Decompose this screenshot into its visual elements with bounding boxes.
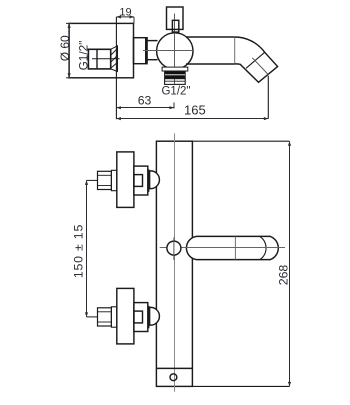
dim 268 [288, 141, 291, 386]
elbow outer arc + 45 deg end [235, 37, 278, 82]
spout tube (top view) [186, 36, 235, 38]
cone tail with hatch [111, 46, 118, 72]
threaded block [165, 71, 186, 79]
svg-text:19: 19 [119, 6, 131, 18]
neck to circle [147, 40, 157, 42]
threaded G1/2 below circle: collar [162, 67, 188, 71]
top connection assembly [87, 152, 160, 208]
elbow ring joint line [246, 52, 265, 68]
dim 150 ± 15 [85, 180, 88, 317]
svg-text:G1/2": G1/2" [161, 86, 190, 98]
dim 63 [116, 103, 174, 110]
spout centerline [160, 247, 285, 249]
nut centerline [92, 58, 120, 60]
extension from spout tip [267, 76, 269, 119]
svg-text:268: 268 [276, 265, 290, 286]
G1/2 nut (top view, in-wall supply) [88, 49, 110, 69]
circle crosshair [143, 50, 194, 52]
svg-text:Ø 60: Ø 60 [58, 35, 72, 61]
dim 165 [116, 117, 268, 120]
spout joint line [234, 236, 236, 259]
elbow end centerline [252, 58, 268, 75]
column centerline [174, 133, 176, 392]
svg-text:165: 165 [184, 103, 206, 118]
foot screw circle [170, 374, 177, 381]
268 extension lines [192, 140, 289, 142]
spout inner cap arc [260, 236, 266, 259]
bottom connection assembly [87, 288, 160, 344]
svg-text:G1/2": G1/2" [77, 41, 91, 71]
dim 19 line [116, 15, 134, 23]
lower sleeve [165, 79, 186, 85]
valve circle [157, 33, 193, 69]
valve body [134, 166, 148, 195]
washer [111, 170, 116, 190]
column [156, 141, 192, 386]
connector plate to valve [134, 38, 148, 64]
top view: built-in box / escutcheon rect [69, 23, 133, 77]
dim Ø60 arrows on plate left edge [66, 23, 72, 77]
lever (top view) [167, 7, 184, 29]
dome [150, 171, 160, 189]
cartridge notch [134, 175, 143, 187]
escutcheon [117, 152, 134, 208]
spout (front view) [186, 236, 278, 259]
svg-text:150 ± 15: 150 ± 15 [71, 224, 85, 278]
nut [98, 171, 112, 189]
diverter circle [167, 241, 181, 255]
dome ring [148, 169, 150, 192]
wall face / extension line [115, 17, 117, 119]
svg-text:63: 63 [138, 94, 152, 108]
foot separation line [156, 367, 192, 369]
supply line [87, 179, 99, 181]
